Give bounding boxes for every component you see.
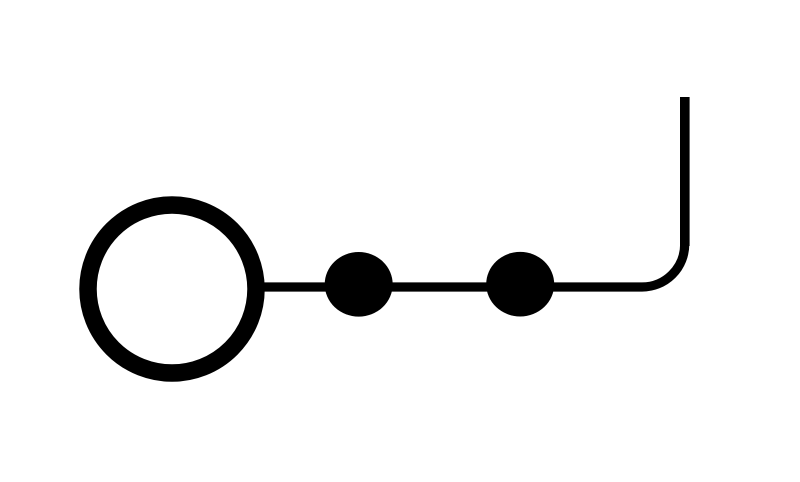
wire (vertical segment up to top) <box>680 97 690 246</box>
wire (rounded bend up) <box>642 244 685 287</box>
wire (horizontal segment from circle to bend) <box>263 282 642 291</box>
terminal circle (open-circle symbol) <box>88 205 256 373</box>
junction dot 2 <box>486 252 554 317</box>
junction dot 1 <box>325 252 393 317</box>
